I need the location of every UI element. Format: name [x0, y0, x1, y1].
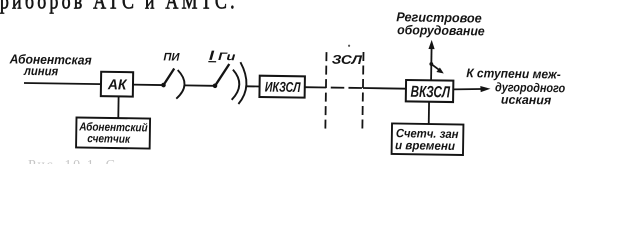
svg-text:ИКЗСЛ: ИКЗСЛ — [265, 78, 301, 95]
svg-text:Рис. 10.1. С: Рис. 10.1. С — [28, 158, 117, 164]
svg-text:счетчик: счетчик — [87, 133, 131, 146]
svg-text:линия: линия — [23, 64, 59, 79]
svg-text:АК: АК — [107, 77, 128, 93]
svg-text:К ступени меж-: К ступени меж- — [466, 66, 561, 81]
svg-text:ПИ: ПИ — [163, 51, 180, 63]
svg-text:искания: искания — [501, 93, 552, 108]
svg-text:ЗСЛ: ЗСЛ — [332, 53, 363, 67]
svg-text:приборов АТС и АМТС.: приборов АТС и АМТС. — [0, 0, 238, 14]
svg-text:ВКЗСЛ: ВКЗСЛ — [410, 84, 450, 102]
svg-text:и времени: и времени — [395, 138, 456, 153]
svg-text:оборудование: оборудование — [397, 22, 485, 38]
